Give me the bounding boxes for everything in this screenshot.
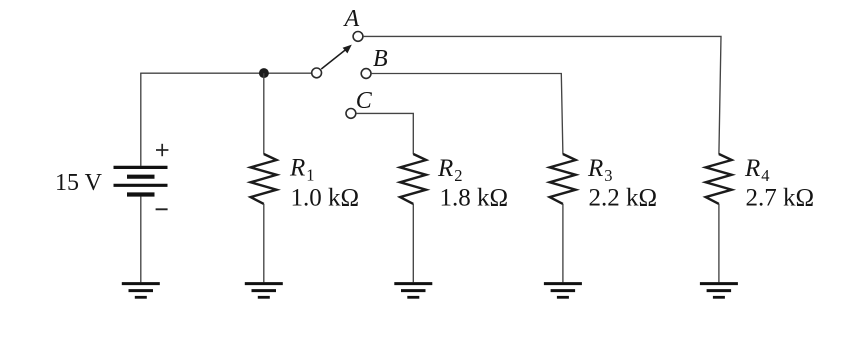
resistor R2 zigzag xyxy=(400,154,426,204)
svg-text:B: B xyxy=(373,46,388,72)
wire R2 bottom xyxy=(412,204,414,282)
svg-text:1: 1 xyxy=(306,166,314,185)
svg-text:A: A xyxy=(343,6,360,32)
resistor R1 zigzag xyxy=(251,154,277,204)
svg-text:4: 4 xyxy=(761,166,769,185)
ground R1 xyxy=(245,284,283,298)
svg-text:3: 3 xyxy=(604,166,612,185)
svg-text:1.8 kΩ: 1.8 kΩ xyxy=(440,185,509,212)
svg-text:R: R xyxy=(289,155,305,182)
wire from B to R3 top xyxy=(371,74,563,155)
ground R2 xyxy=(394,284,432,298)
svg-text:C: C xyxy=(356,88,373,114)
wire R4 bottom xyxy=(718,204,720,282)
svg-text:R: R xyxy=(587,155,603,182)
resistor R3 zigzag xyxy=(550,154,576,204)
resistor R4 zigzag xyxy=(706,154,732,204)
wire R1 bottom xyxy=(263,204,265,282)
switch SW pole circle xyxy=(312,68,322,78)
node A contact circle xyxy=(353,32,363,42)
wire main horizontal from battery to switch pole xyxy=(140,72,312,74)
wire junction down to R1 xyxy=(263,73,265,154)
svg-text:15 V: 15 V xyxy=(55,170,103,196)
wire from A to R4 top xyxy=(363,36,721,154)
svg-text:1.0 kΩ: 1.0 kΩ xyxy=(291,185,360,212)
wire battery bottom xyxy=(140,197,142,283)
node C contact circle xyxy=(346,109,356,119)
svg-text:R: R xyxy=(744,155,760,182)
wire from C to R2 top xyxy=(356,113,413,154)
wire R3 bottom xyxy=(562,204,564,282)
battery V 15 V xyxy=(114,144,169,210)
wire battery top vertical xyxy=(140,73,142,166)
svg-text:2: 2 xyxy=(454,166,462,185)
svg-text:2.2 kΩ: 2.2 kΩ xyxy=(589,185,658,212)
node B contact circle xyxy=(361,69,371,79)
ground R4 xyxy=(700,284,738,298)
node junction dot xyxy=(259,68,269,78)
ground R3 xyxy=(544,284,582,298)
svg-text:2.7 kΩ: 2.7 kΩ xyxy=(746,185,815,212)
ground battery xyxy=(122,284,160,298)
svg-text:R: R xyxy=(437,155,453,182)
switch SW blade arrow xyxy=(321,45,352,69)
